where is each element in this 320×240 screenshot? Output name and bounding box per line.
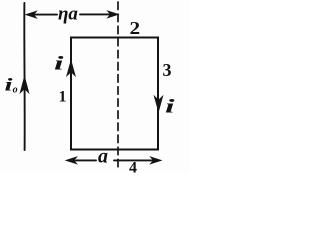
svg-text:3: 3 [163, 60, 172, 80]
dimension arrow a (bottom, left segment with left arrowhead) [70, 159, 96, 161]
loop: rectangular current loop (sides 1,2,3,4) [71, 38, 158, 150]
wire: current direction arrowhead on i0 wire [20, 77, 28, 93]
dimension arrow a (bottom, right segment with right arrowhead) [114, 159, 157, 161]
svg-text:o: o [13, 85, 18, 96]
dashed center line of the loop [117, 2, 119, 167]
dimension arrow eta-a (top, left segment with left arrowhead) [29, 14, 57, 16]
loop: current arrowhead (down) on side 3 [155, 97, 163, 112]
loop: current arrowhead (up) on side 1 [67, 61, 75, 76]
svg-text:i: i [54, 52, 64, 73]
svg-text:a: a [98, 146, 108, 168]
dimension arrow eta-a (top, right segment with right arrowhead) [80, 13, 114, 15]
svg-text:i: i [165, 95, 175, 116]
svg-text:4: 4 [129, 160, 137, 174]
svg-text:2: 2 [130, 18, 141, 38]
wire: long straight wire carrying current i0 [23, 3, 25, 150]
svg-text:ηa: ηa [58, 4, 78, 25]
svg-text:1: 1 [59, 89, 67, 106]
